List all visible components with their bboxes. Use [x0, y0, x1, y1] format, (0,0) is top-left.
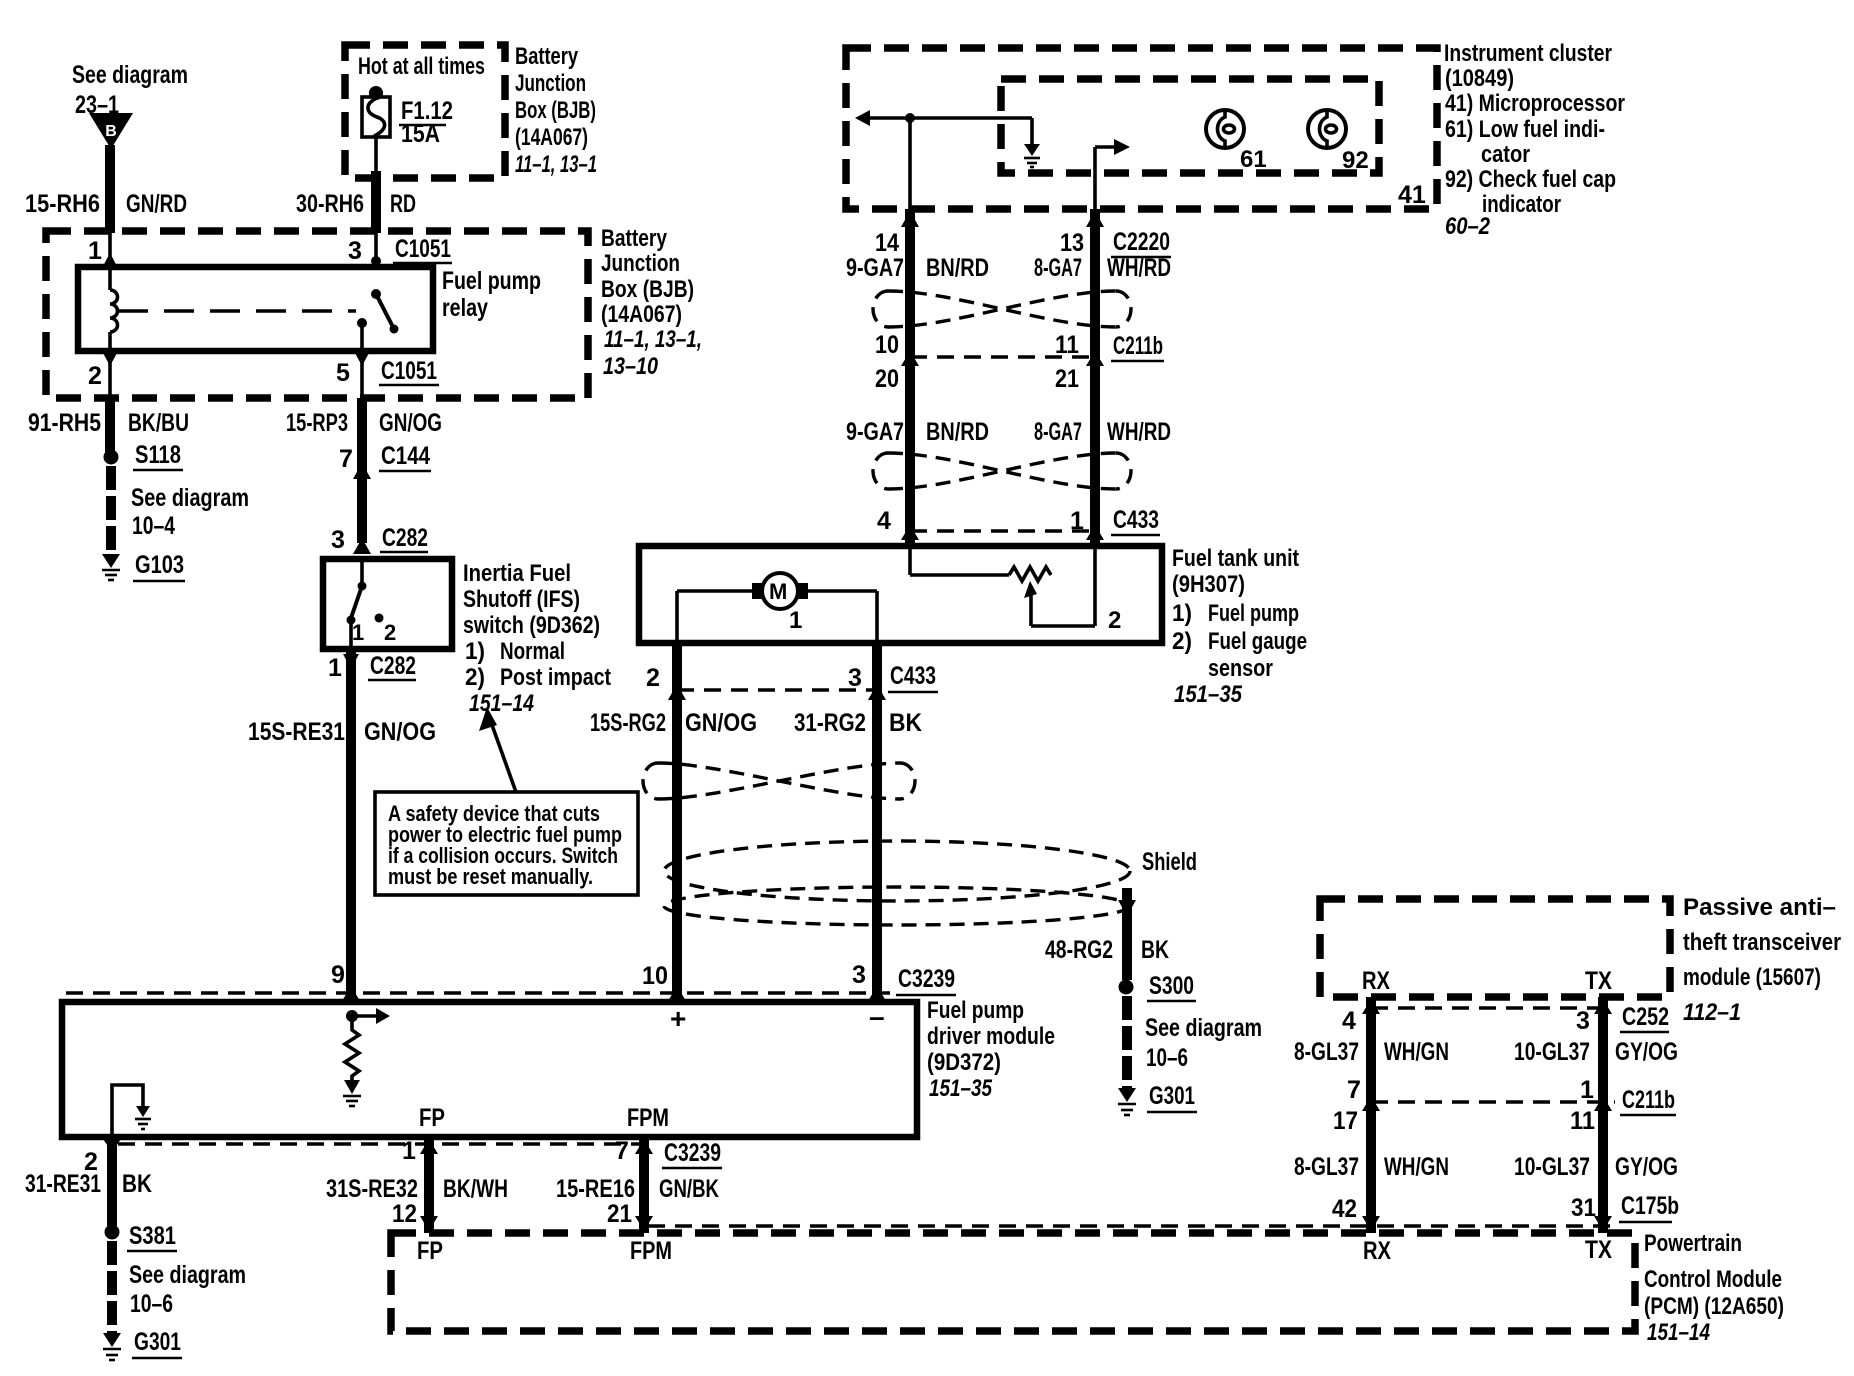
connector C433 pins 4 / 1 — [877, 506, 1160, 540]
ground G301 (shield) — [1118, 1082, 1197, 1115]
callout arrow to IFS note — [479, 707, 516, 792]
svg-text:15S-RG2: 15S-RG2 — [590, 709, 666, 737]
wire 91-RH5 BK/BU — [28, 398, 189, 452]
microprocessor inner dashed box (41) — [1001, 79, 1379, 173]
svg-text:2: 2 — [384, 620, 396, 645]
svg-text:WH/RD: WH/RD — [1107, 418, 1171, 446]
svg-text:BN/RD: BN/RD — [926, 418, 989, 446]
Fuel tank unit (9H307) box — [639, 546, 1162, 643]
svg-text:9-GA7: 9-GA7 — [846, 418, 904, 446]
Passive anti-theft transceiver module (15607) box — [1320, 899, 1670, 997]
svg-text:12: 12 — [392, 1200, 417, 1228]
cluster internal feed wire with left arrow — [855, 110, 1032, 126]
module internal sense resistor to ground — [343, 1008, 390, 1106]
svg-text:20: 20 — [875, 365, 899, 393]
svg-text:1: 1 — [789, 607, 802, 634]
svg-text:7: 7 — [1347, 1076, 1361, 1104]
connector C144 pin 7 — [339, 442, 431, 479]
svg-text:C211b: C211b — [1622, 1086, 1675, 1114]
wire 48-RG2 BK shield drain — [1045, 888, 1169, 980]
svg-text:61: 61 — [1240, 146, 1267, 173]
svg-text:GN/BK: GN/BK — [659, 1175, 719, 1203]
svg-text:G301: G301 — [1149, 1082, 1195, 1110]
svg-text:–: – — [869, 1001, 885, 1032]
svg-text:17: 17 — [1333, 1107, 1358, 1135]
wire 15S-RG2 GN/OG (fuel pump +) — [590, 643, 757, 1002]
svg-text:10: 10 — [642, 962, 668, 990]
wire labels 9-GA7 BN/RD / 8-GA7 WH/RD (upper) — [846, 254, 1171, 282]
wire 15-RH6 GN/RD from triangle B to BJB — [25, 145, 187, 233]
svg-text:8-GA7: 8-GA7 — [1034, 254, 1082, 282]
cluster internal ground — [1024, 118, 1040, 167]
svg-text:3: 3 — [848, 664, 862, 692]
svg-text:C3239: C3239 — [898, 965, 955, 993]
svg-text:(14A067): (14A067) — [601, 301, 682, 328]
svg-text:GN/RD: GN/RD — [126, 190, 187, 218]
svg-text:switch (9D362): switch (9D362) — [463, 612, 600, 639]
svg-text:See diagram: See diagram — [1145, 1014, 1262, 1042]
svg-text:91-RH5: 91-RH5 — [28, 409, 101, 437]
wire labels 8-GL37 WH/GN / 10-GL37 GY/OG (upper) — [1294, 1038, 1678, 1066]
svg-text:1): 1) — [465, 638, 485, 665]
svg-text:13–10: 13–10 — [603, 353, 659, 380]
svg-text:2: 2 — [646, 664, 660, 692]
connector C3239 line at module top — [66, 961, 956, 1001]
module internal ground link (pin 2) — [112, 1085, 151, 1137]
svg-text:10-GL37: 10-GL37 — [1514, 1153, 1590, 1181]
connector C282 pin 3 — [331, 524, 428, 554]
svg-text:TX: TX — [1585, 1236, 1612, 1264]
svg-text:2: 2 — [88, 362, 102, 390]
svg-text:151–14: 151–14 — [469, 690, 534, 717]
svg-text:TX: TX — [1585, 967, 1612, 995]
svg-text:See diagram: See diagram — [72, 61, 188, 89]
ground G103 — [102, 551, 185, 581]
svg-text:4: 4 — [1342, 1007, 1356, 1035]
svg-text:WH/GN: WH/GN — [1384, 1153, 1449, 1181]
svg-text:8-GA7: 8-GA7 — [1034, 418, 1082, 446]
callout note box: IFS description — [375, 792, 638, 895]
twisted pair symbol (upper) — [873, 291, 1131, 327]
svg-text:2): 2) — [1172, 628, 1192, 655]
wire cluster pin 14 vertical — [901, 118, 919, 546]
wire 8-GL37 WH/GN (RX) — [1362, 997, 1380, 1233]
svg-text:indicator: indicator — [1482, 191, 1561, 218]
svg-text:15-RH6: 15-RH6 — [25, 190, 100, 218]
svg-text:15-RE16: 15-RE16 — [556, 1175, 635, 1203]
svg-text:Passive anti–: Passive anti– — [1683, 894, 1836, 921]
svg-text:Shield: Shield — [1142, 848, 1197, 876]
svg-text:RX: RX — [1362, 967, 1390, 995]
svg-text:(9D372): (9D372) — [927, 1049, 1001, 1076]
svg-text:1: 1 — [1580, 1076, 1594, 1104]
svg-text:Fuel pump: Fuel pump — [442, 267, 541, 295]
svg-text:relay: relay — [442, 294, 488, 322]
splice S118 — [104, 441, 184, 470]
svg-text:92: 92 — [1342, 147, 1369, 174]
svg-text:Fuel pump: Fuel pump — [927, 997, 1024, 1024]
svg-text:(14A067): (14A067) — [515, 124, 588, 151]
svg-text:GY/OG: GY/OG — [1615, 1038, 1678, 1066]
svg-text:21: 21 — [1055, 365, 1079, 393]
svg-text:C3239: C3239 — [664, 1139, 721, 1167]
Fuel pump driver module (9D372) box — [62, 1001, 917, 1137]
svg-text:10–4: 10–4 — [132, 512, 175, 540]
Instrument cluster dashed enclosure (10849) — [846, 48, 1437, 209]
svg-text:11: 11 — [1570, 1107, 1595, 1135]
svg-text:7: 7 — [615, 1137, 629, 1165]
svg-text:See diagram: See diagram — [131, 484, 249, 512]
svg-text:48-RG2: 48-RG2 — [1045, 936, 1113, 964]
splice S300 — [1119, 972, 1197, 1001]
relay K: fuel pump relay box — [78, 267, 541, 351]
twisted pair symbol (lower) — [873, 453, 1131, 489]
svg-text:3: 3 — [331, 526, 345, 554]
svg-text:14: 14 — [875, 229, 899, 257]
svg-text:FP: FP — [417, 1237, 443, 1265]
svg-text:C1051: C1051 — [381, 357, 437, 385]
connector C211b pins 10/11 - 20/21 — [875, 331, 1164, 393]
svg-text:GN/OG: GN/OG — [364, 718, 436, 746]
svg-text:module (15607): module (15607) — [1683, 964, 1821, 991]
connector C252 pins 4 / 3 — [1342, 1003, 1669, 1035]
wire 30-RH6 RD from fuse to BJB — [296, 137, 416, 233]
svg-text:C2220: C2220 — [1113, 228, 1170, 256]
svg-text:151–14: 151–14 — [1647, 1319, 1710, 1346]
label: Instrument cluster (10849) legend — [1444, 40, 1625, 240]
svg-text:Instrument cluster: Instrument cluster — [1444, 40, 1612, 67]
indicator lamp 92: check fuel cap — [1308, 110, 1369, 174]
svg-text:2: 2 — [1108, 607, 1121, 634]
svg-text:Junction: Junction — [515, 70, 586, 97]
svg-text:C211b: C211b — [1113, 332, 1163, 360]
svg-text:BK: BK — [122, 1170, 152, 1198]
svg-text:9: 9 — [331, 961, 345, 989]
svg-text:30-RH6: 30-RH6 — [296, 190, 364, 218]
wire to G301 (see diagram 10-6) — [1127, 996, 1262, 1088]
svg-text:Inertia Fuel: Inertia Fuel — [463, 560, 571, 587]
svg-text:4: 4 — [877, 507, 891, 535]
pin 1 C1051 — [88, 233, 118, 268]
svg-text:must be reset manually.: must be reset manually. — [388, 864, 593, 889]
pin 2 C1051 — [88, 351, 118, 398]
svg-text:M: M — [769, 579, 787, 604]
label: Battery Junction Box (BJB) (14A067) 11-1, 13-1, 13-10 — [601, 225, 702, 380]
svg-text:1: 1 — [352, 620, 364, 645]
label: Battery Junction Box (BJB) (14A067) 11-1, 13-1 (fuse box) — [515, 43, 597, 178]
connector C175b pins 42 / 31 — [648, 1192, 1679, 1231]
svg-text:WH/RD: WH/RD — [1107, 254, 1171, 282]
svg-text:C252: C252 — [1622, 1003, 1669, 1031]
svg-text:1: 1 — [328, 654, 342, 682]
svg-text:Battery: Battery — [601, 225, 668, 252]
svg-text:RX: RX — [1363, 1237, 1391, 1265]
svg-text:+: + — [670, 1003, 686, 1034]
svg-text:92) Check fuel cap: 92) Check fuel cap — [1445, 166, 1616, 193]
shield (dashed ellipses around pump wires) — [664, 841, 1197, 925]
svg-text:C282: C282 — [370, 652, 416, 680]
svg-text:151–35: 151–35 — [929, 1075, 993, 1102]
fuse F1.12 15A — [362, 86, 453, 148]
connector C282 pin 1 — [328, 652, 416, 682]
svg-text:BK: BK — [1141, 936, 1169, 964]
connector C2220 pins 14 / 13 — [875, 228, 1171, 257]
svg-text:C144: C144 — [381, 442, 430, 470]
connector C433 pins 2 / 3 below tank — [646, 662, 938, 700]
svg-text:G103: G103 — [135, 551, 184, 579]
svg-text:(9H307): (9H307) — [1172, 571, 1245, 598]
wire 15-RE16 GN/BK (FPM) — [556, 1137, 722, 1233]
svg-text:Control Module: Control Module — [1644, 1266, 1782, 1293]
svg-text:Fuel gauge: Fuel gauge — [1208, 628, 1307, 655]
Powertrain Control Module (PCM) box — [391, 1233, 1635, 1331]
label: Fuel tank unit (9H307) legend — [1172, 545, 1307, 708]
switch S: Inertia Fuel Shutoff (IFS) switch box — [323, 559, 452, 649]
svg-text:41) Microprocessor: 41) Microprocessor — [1445, 90, 1625, 117]
ground G301 (module) — [103, 1328, 182, 1360]
svg-text:42: 42 — [1332, 1195, 1357, 1223]
svg-text:Hot at all times: Hot at all times — [358, 53, 485, 80]
svg-text:1: 1 — [402, 1137, 416, 1165]
svg-text:Normal: Normal — [500, 638, 565, 665]
svg-text:10–6: 10–6 — [1146, 1044, 1188, 1072]
connector C211b pins 7/1 - 17/11 — [1333, 1076, 1676, 1135]
svg-text:S300: S300 — [1149, 972, 1194, 1000]
svg-text:11–1, 13–1: 11–1, 13–1 — [515, 151, 597, 178]
svg-text:FPM: FPM — [630, 1237, 672, 1265]
svg-text:BK/BU: BK/BU — [128, 409, 189, 437]
svg-text:Shutoff (IFS): Shutoff (IFS) — [463, 586, 580, 613]
svg-text:driver module: driver module — [927, 1023, 1055, 1050]
svg-text:8-GL37: 8-GL37 — [1294, 1038, 1359, 1066]
svg-text:GN/OG: GN/OG — [685, 709, 757, 737]
label: Passive anti-theft transceiver module (15607) — [1683, 894, 1841, 1026]
svg-text:Battery: Battery — [515, 43, 578, 70]
svg-text:Powertrain: Powertrain — [1644, 1230, 1742, 1257]
svg-text:10-GL37: 10-GL37 — [1514, 1038, 1590, 1066]
svg-text:BK/WH: BK/WH — [443, 1175, 508, 1203]
svg-text:theft transceiver: theft transceiver — [1683, 929, 1841, 956]
svg-text:41: 41 — [1398, 181, 1426, 209]
Battery Junction Box dashed enclosure — [46, 231, 588, 398]
wire 10-GL37 GY/OG (TX) — [1594, 997, 1612, 1233]
svg-text:21: 21 — [607, 1200, 632, 1228]
svg-text:Fuel pump: Fuel pump — [1208, 600, 1299, 627]
relay internal dashed link — [118, 309, 356, 313]
svg-text:cator: cator — [1481, 141, 1530, 168]
svg-text:31-RG2: 31-RG2 — [794, 709, 866, 737]
Hot at all times box (BJB fuse box) — [345, 45, 505, 178]
node B: see diagram 23-1 reference — [72, 61, 188, 149]
svg-text:10–6: 10–6 — [130, 1290, 173, 1318]
svg-text:GN/OG: GN/OG — [379, 409, 442, 437]
wire 15-RP3 GN/OG — [286, 398, 442, 543]
indicator lamp 61: low fuel — [1206, 110, 1267, 173]
wire 31-RG2 BK (fuel pump -) — [794, 643, 922, 1002]
svg-text:3: 3 — [852, 961, 866, 989]
svg-text:7: 7 — [339, 445, 353, 473]
label: Inertia Fuel Shutoff (IFS) switch (9D362) — [463, 560, 611, 717]
svg-text:9-GA7: 9-GA7 — [846, 254, 904, 282]
svg-text:151–35: 151–35 — [1174, 681, 1243, 708]
connector C3239 line below module (pins 1/7) — [118, 1142, 641, 1145]
svg-text:15A: 15A — [401, 120, 440, 148]
wire 31S-RE32 BK/WH (FP) — [326, 1137, 508, 1233]
relay switch blade — [357, 289, 399, 351]
svg-text:Junction: Junction — [601, 250, 680, 277]
svg-text:Fuel tank unit: Fuel tank unit — [1172, 545, 1299, 572]
fuel gauge sensor resistor and wiper — [910, 546, 1121, 634]
label: Fuel pump driver module (9D372) — [927, 997, 1055, 1102]
pin 3 C1051 — [348, 233, 452, 266]
svg-text:3: 3 — [348, 237, 362, 265]
splice S381 — [105, 1222, 178, 1251]
svg-text:FPM: FPM — [627, 1104, 669, 1132]
svg-text:C433: C433 — [1113, 506, 1159, 534]
svg-text:15S-RE31: 15S-RE31 — [248, 718, 345, 746]
svg-text:G301: G301 — [134, 1328, 181, 1356]
svg-text:10: 10 — [875, 331, 899, 359]
svg-text:C433: C433 — [890, 662, 936, 690]
wire to G301 (see diagram 10-6, left) — [112, 1241, 246, 1333]
svg-text:13: 13 — [1060, 229, 1084, 257]
svg-text:31: 31 — [1571, 1194, 1596, 1222]
motor M1: fuel pump motor — [677, 546, 910, 643]
svg-text:3: 3 — [1576, 1007, 1590, 1035]
svg-text:(10849): (10849) — [1445, 65, 1514, 92]
wire labels 9-GA7 BN/RD / 8-GA7 WH/RD (lower) — [846, 418, 1171, 446]
wire 15S-RE31 GN/OG to module pin 9 — [248, 649, 436, 1002]
svg-text:RD: RD — [390, 190, 416, 218]
svg-text:B: B — [105, 123, 117, 140]
svg-text:61) Low fuel indi-: 61) Low fuel indi- — [1445, 116, 1605, 143]
svg-text:C1051: C1051 — [395, 235, 451, 263]
IFS switch blade and contacts — [347, 559, 397, 649]
wire cluster pin 13 vertical — [1086, 209, 1104, 546]
svg-text:8-GL37: 8-GL37 — [1294, 1153, 1359, 1181]
svg-text:BN/RD: BN/RD — [926, 254, 989, 282]
svg-text:11: 11 — [1055, 331, 1079, 359]
wire labels 8-GL37 WH/GN / 10-GL37 GY/OG (lower) — [1294, 1153, 1678, 1181]
svg-text:See diagram: See diagram — [129, 1261, 246, 1289]
relay coil — [110, 267, 118, 351]
svg-text:15-RP3: 15-RP3 — [286, 409, 348, 437]
twisted pair symbol (pump wires) — [643, 763, 915, 799]
wire to G103 (see diagram 10-4) — [111, 466, 249, 554]
svg-text:FP: FP — [419, 1104, 445, 1132]
svg-text:(PCM) (12A650): (PCM) (12A650) — [1644, 1293, 1784, 1320]
svg-text:S381: S381 — [129, 1222, 176, 1250]
svg-text:Post impact: Post impact — [500, 664, 611, 691]
svg-text:Box (BJB): Box (BJB) — [601, 276, 694, 303]
svg-text:C175b: C175b — [1621, 1192, 1679, 1220]
svg-text:2): 2) — [465, 664, 485, 691]
svg-text:31S-RE32: 31S-RE32 — [326, 1175, 418, 1203]
svg-text:WH/GN: WH/GN — [1384, 1038, 1449, 1066]
svg-text:sensor: sensor — [1208, 655, 1273, 682]
label: Powertrain Control Module (PCM) (12A650) — [1644, 1230, 1784, 1346]
cluster pin13 internal stub arrow — [1095, 139, 1130, 209]
svg-text:112–1: 112–1 — [1683, 999, 1741, 1026]
svg-text:1): 1) — [1172, 600, 1192, 627]
svg-text:60–2: 60–2 — [1445, 213, 1491, 240]
svg-text:BK: BK — [889, 709, 922, 737]
pin 5 C1051 — [336, 351, 439, 398]
svg-text:1: 1 — [88, 237, 102, 265]
svg-text:11–1, 13–1,: 11–1, 13–1, — [604, 326, 702, 353]
svg-text:31-RE31: 31-RE31 — [25, 1170, 101, 1198]
svg-text:5: 5 — [336, 359, 350, 387]
svg-text:C282: C282 — [382, 524, 428, 552]
wire 31-RE31 BK (module pin 2) — [25, 1137, 152, 1226]
svg-text:GY/OG: GY/OG — [1615, 1153, 1678, 1181]
svg-text:S118: S118 — [135, 441, 181, 469]
svg-text:Box (BJB): Box (BJB) — [515, 97, 596, 124]
